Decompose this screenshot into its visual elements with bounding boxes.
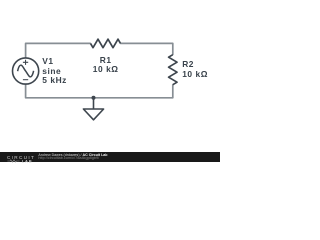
svg-text:LAB: LAB bbox=[21, 159, 32, 163]
label R1 bbox=[92, 56, 120, 75]
footer logo zigzag + LAB bbox=[7, 159, 37, 164]
label V1 bbox=[42, 57, 67, 86]
footer bar bbox=[0, 152, 220, 162]
label R2 bbox=[182, 60, 208, 79]
V1 plus sign bbox=[23, 60, 28, 65]
V1 sine wave bbox=[18, 65, 34, 77]
resistor R2 zigzag bbox=[169, 55, 178, 85]
footer attribution line 1 bbox=[38, 154, 107, 158]
ground triangle bbox=[83, 109, 103, 120]
wire top-left: V1 top to R1 left bbox=[26, 43, 91, 58]
footer attribution line 2 bbox=[38, 157, 99, 161]
resistor R1 zigzag bbox=[91, 39, 121, 48]
footer logo CIRCUIT bbox=[7, 156, 35, 161]
voltage source V1 circle bbox=[13, 58, 39, 84]
wire top-right: R1 right to R2 top bbox=[120, 43, 173, 55]
V1 minus sign bbox=[23, 79, 28, 81]
wire bottom rail bbox=[26, 84, 173, 98]
ground junction dot bbox=[92, 96, 96, 100]
ground stub bbox=[93, 98, 95, 109]
